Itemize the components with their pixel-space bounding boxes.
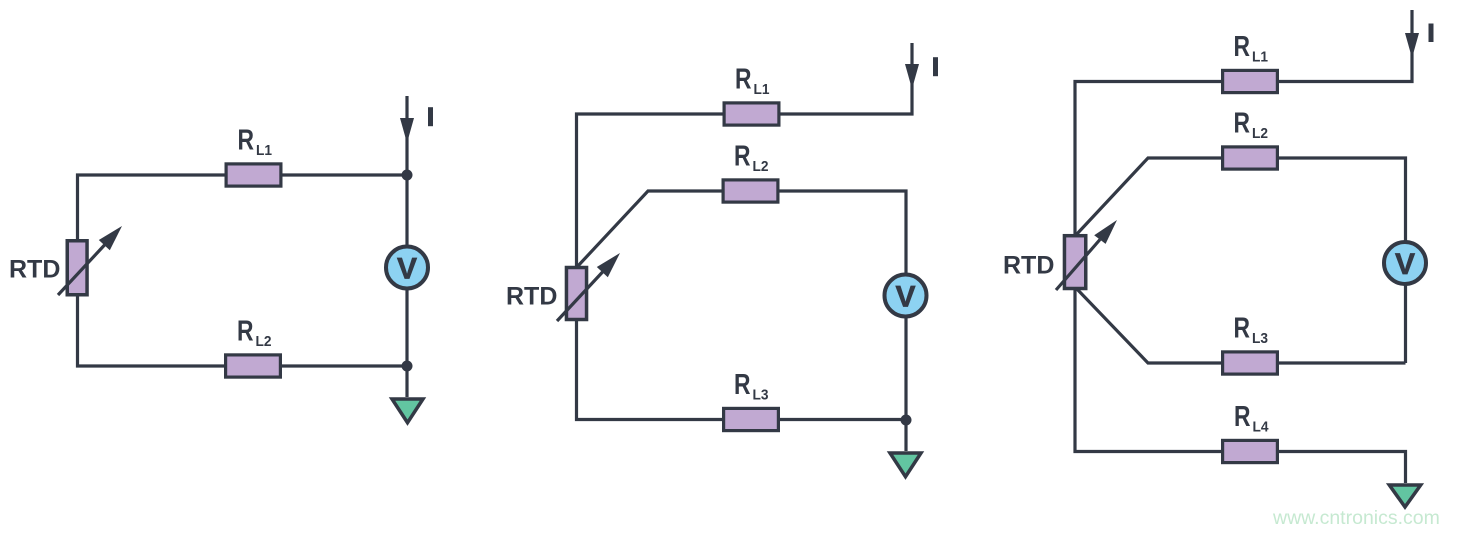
svg-text:R: R [734, 369, 751, 401]
svg-text:R: R [237, 316, 254, 348]
svg-text:L1: L1 [256, 142, 272, 159]
svg-text:R: R [1234, 401, 1251, 433]
svg-text:V: V [1395, 248, 1415, 281]
svg-text:L1: L1 [754, 81, 770, 98]
svg-text:L3: L3 [1252, 330, 1268, 347]
svg-text:R: R [1234, 108, 1251, 140]
svg-text:V: V [397, 253, 417, 286]
svg-text:V: V [895, 281, 915, 314]
svg-text:L2: L2 [256, 333, 272, 350]
svg-text:RTD: RTD [9, 256, 60, 284]
svg-text:L2: L2 [753, 158, 769, 175]
svg-text:L3: L3 [753, 387, 769, 404]
svg-text:R: R [1234, 313, 1251, 345]
svg-text:L2: L2 [1252, 125, 1268, 142]
svg-text:R: R [238, 125, 255, 157]
svg-text:www.cntronics.com: www.cntronics.com [1272, 507, 1440, 529]
svg-text:L4: L4 [1253, 419, 1270, 436]
svg-text:RTD: RTD [506, 283, 557, 311]
svg-text:R: R [1234, 31, 1251, 63]
svg-text:L1: L1 [1252, 49, 1268, 66]
svg-text:R: R [735, 64, 752, 96]
svg-text:R: R [734, 141, 751, 173]
svg-text:RTD: RTD [1003, 252, 1054, 280]
